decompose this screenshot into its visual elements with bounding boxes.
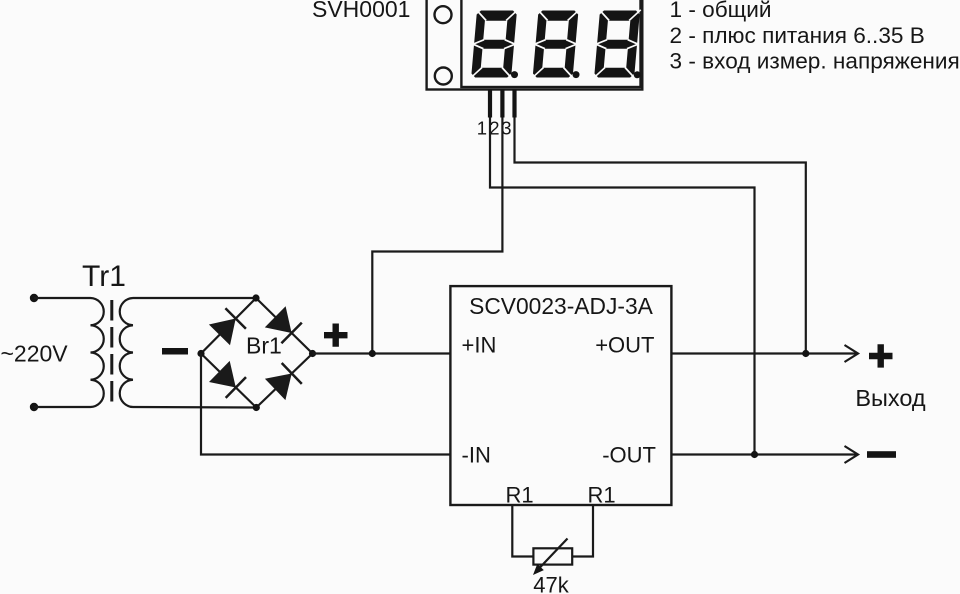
svg-text:R1: R1 — [588, 483, 616, 508]
junction node on +OUT wire — [802, 350, 809, 357]
svg-text:~220V: ~220V — [1, 341, 69, 367]
bridge node right — [309, 350, 316, 357]
plus sign at output — [869, 344, 893, 367]
svg-text:-OUT: -OUT — [602, 443, 656, 468]
wire left bridge node to -IN — [201, 354, 450, 455]
transformer Tr1 core — [110, 300, 113, 406]
svg-text:3 - вход измер. напряжения: 3 - вход измер. напряжения — [670, 49, 960, 74]
svg-text:1 - общий: 1 - общий — [670, 0, 772, 22]
svg-text:Tr1: Tr1 — [82, 260, 126, 293]
minus sign at bridge left — [162, 348, 188, 355]
bridge Br1 diamond edges — [201, 298, 313, 408]
input terminal bottom — [30, 403, 38, 411]
svg-text:Br1: Br1 — [246, 333, 282, 359]
decimal point 3 — [634, 71, 641, 78]
wire pin2 to +IN net — [372, 118, 502, 354]
7-segment digit 3 — [593, 10, 641, 78]
diode D3 left-to-bottom — [209, 361, 246, 398]
svg-text:2 - плюс питания 6..35 В: 2 - плюс питания 6..35 В — [670, 23, 925, 48]
wire secondary top to bridge — [133, 297, 256, 299]
pin 3 stub — [512, 90, 516, 118]
potentiometer arrow — [533, 539, 568, 576]
pin 1 stub — [488, 90, 492, 118]
wire -OUT to output — [671, 453, 857, 455]
decimal point 2 — [573, 71, 580, 78]
bridge node left — [197, 350, 204, 357]
7-segment digit 2 — [532, 10, 580, 78]
diode D2 top-to-right — [265, 306, 302, 343]
diode D1 left-to-top — [209, 308, 246, 345]
wire right bridge node to +IN — [313, 352, 451, 354]
transformer Tr1 secondary winding — [120, 298, 133, 407]
svg-text:47k: 47k — [533, 573, 569, 594]
wire R1 left pin to potentiometer — [512, 505, 533, 557]
regulator box SCV0023-ADJ-3A — [450, 286, 671, 505]
svg-text:+IN: +IN — [462, 333, 497, 358]
arrow head -OUT — [845, 446, 859, 463]
svg-text:-IN: -IN — [462, 443, 491, 468]
wire bottom terminal to transformer — [34, 406, 91, 408]
pin 2 stub — [500, 90, 504, 118]
bridge node top — [252, 294, 259, 301]
svg-text:1: 1 — [477, 118, 487, 139]
wire +OUT to output — [671, 352, 857, 354]
potentiometer R1 body — [533, 548, 572, 564]
arrow head +OUT — [845, 345, 859, 362]
minus sign at output — [867, 451, 896, 458]
svg-text:R1: R1 — [506, 483, 534, 508]
wire secondary bottom to bridge — [133, 406, 256, 409]
display window inner rect — [461, 0, 640, 87]
svg-text:SVH0001: SVH0001 — [312, 0, 410, 22]
input terminal top — [30, 294, 38, 302]
mounting hole top — [435, 6, 452, 23]
mounting hole bottom — [435, 68, 452, 85]
wire R1 right pin to potentiometer — [572, 505, 593, 557]
wire pin3 to +OUT net — [515, 118, 806, 354]
7-segment digit 1 — [470, 10, 518, 78]
decimal point 1 — [511, 71, 518, 78]
bridge node bottom — [253, 404, 260, 411]
junction node on -OUT wire — [751, 451, 758, 458]
transformer Tr1 primary winding — [91, 298, 104, 407]
wire top terminal to transformer — [34, 297, 91, 299]
diode D4 bottom-to-right — [265, 363, 302, 400]
svg-text:+OUT: +OUT — [595, 333, 654, 358]
wire pin1 to -OUT net — [490, 118, 755, 455]
svg-text:Выход: Выход — [855, 385, 926, 411]
plus sign at bridge right — [324, 324, 348, 347]
svg-text:SCV0023-ADJ-3A: SCV0023-ADJ-3A — [469, 293, 654, 319]
display module SVH0001 outer body — [427, 0, 643, 90]
junction node on +IN wire — [369, 350, 376, 357]
